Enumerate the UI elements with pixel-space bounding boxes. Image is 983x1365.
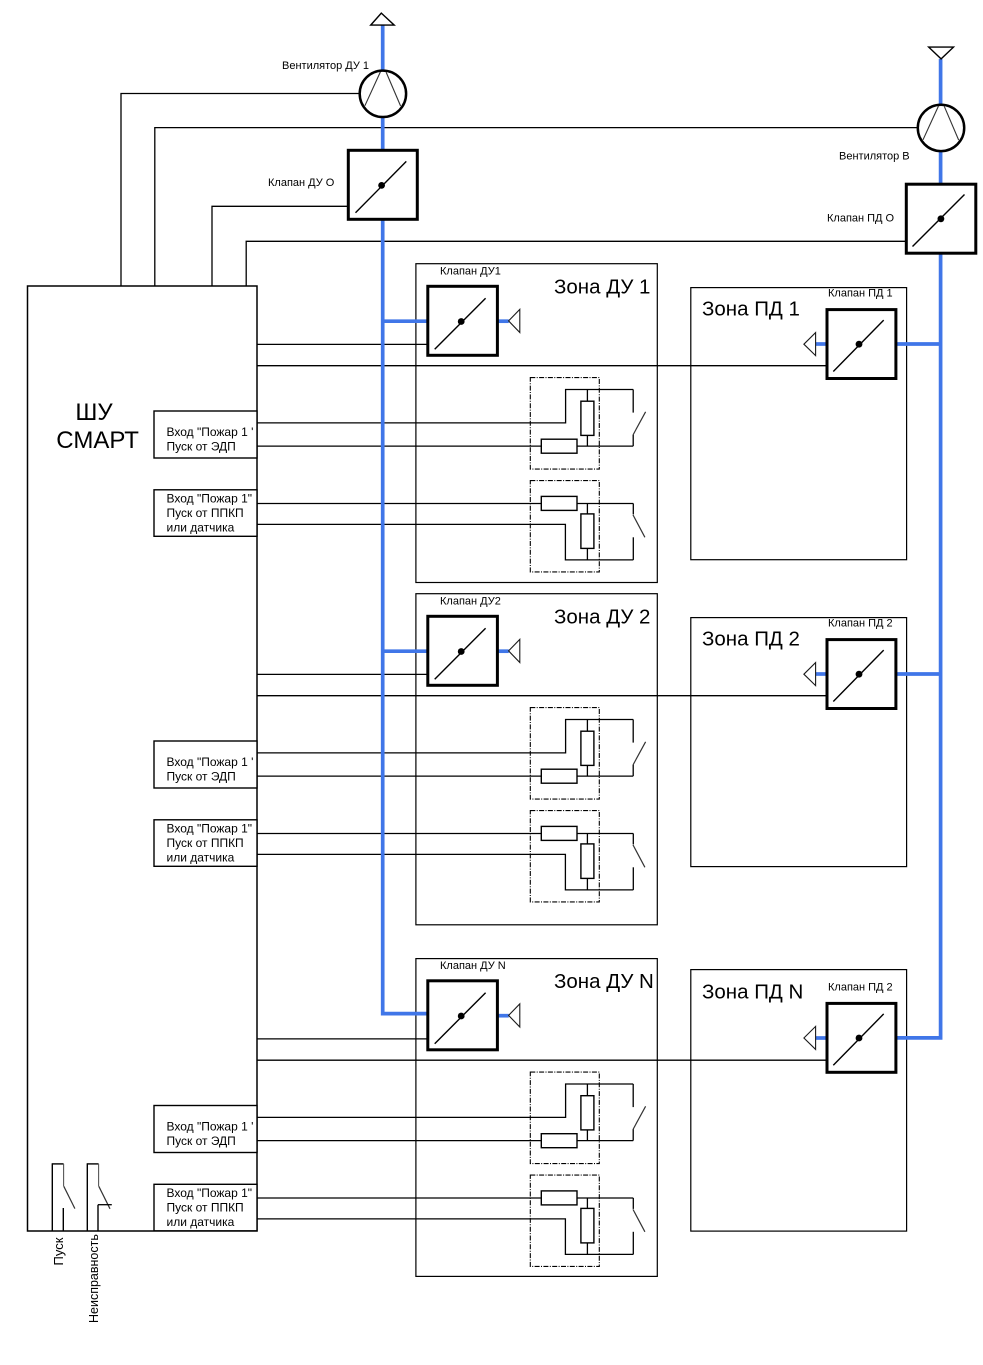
svg-text:Клапан ПД 2: Клапан ПД 2 (828, 982, 893, 994)
wire cabinet to damper ДУ О (212, 206, 348, 286)
wire cabinet to damper ПД (zone N) (257, 1059, 827, 1061)
fan Вентилятор ДУ 1 blades (365, 72, 381, 106)
duct stub left of Клапан ПД 1 (814, 342, 827, 346)
valve blade (zone ПД 2) (833, 650, 883, 701)
wire ППКП line 2 (zone N) (257, 1219, 633, 1255)
wire resistor link (zone N ЭДП) (577, 1140, 633, 1142)
svg-text:Пуск от ЭДП: Пуск от ЭДП (167, 770, 236, 784)
wire cabinet to fan В (155, 128, 919, 286)
svg-text:Вход "Пожар 1 ': Вход "Пожар 1 ' (167, 755, 254, 769)
dashed box ЭДП (zone 2) (530, 708, 599, 800)
resistor vertical (zone 1 ЭДП) (581, 401, 594, 435)
valve box Клапан ПД 2 (zone ПД 2) (827, 640, 896, 709)
svg-text:Зона ПД N: Зона ПД N (702, 981, 803, 1004)
wire vertical resistor leads (zone 2 ЭДП) (586, 720, 588, 732)
wire cabinet to valve Клапан ДУ1 (257, 343, 428, 345)
duct stub right of Клапан ДУ N (497, 1014, 508, 1018)
switch Пуск leads (51, 1163, 53, 1231)
input box Вход Пожар 1 / Пуск от ППКП или датчика (zone 2) (154, 820, 257, 867)
switch Пуск blade (64, 1186, 75, 1208)
resistor vertical (zone N ЭДП) (581, 1096, 594, 1130)
valve pivot dot Клапан ДУ N (458, 1013, 465, 1020)
valve blade Клапан ДУ N (435, 993, 486, 1044)
switch contact (zone 1 ЭДП) (632, 390, 634, 413)
wire cabinet to valve Клапан ДУ N (257, 1038, 428, 1040)
nozzle horn (zone ДУ N) (509, 1004, 520, 1027)
fan Вентилятор В circle (918, 105, 964, 151)
valve box Клапан ДУ2 (428, 616, 498, 685)
wire ЭДП line 1 (zone 2) (257, 720, 633, 753)
switch Неисправность bottom lead (97, 1205, 99, 1231)
wire cabinet to damper ПД О (246, 241, 906, 286)
switch contact (zone 2 ЭДП) (632, 720, 634, 743)
resistor horizontal (zone 1 ППКП) (541, 496, 577, 510)
damper Клапан ПД О box (906, 184, 976, 253)
duct branch to Клапан ДУ1 (381, 319, 428, 323)
valve blade Клапан ДУ1 (435, 298, 486, 349)
wire cabinet to damper ПД (zone 1) (257, 365, 827, 367)
svg-text:Вход "Пожар 1 ': Вход "Пожар 1 ' (167, 1120, 254, 1134)
duct stub right of Клапан ДУ1 (497, 319, 508, 323)
svg-text:Вход "Пожар 1": Вход "Пожар 1" (167, 492, 253, 506)
wire vertical resistor leads (zone 1 ЭДП) (586, 390, 588, 402)
wire vertical resistor leads (zone 1 ППКП) (586, 504, 588, 514)
wire ЭДП line 2 (zone N) (257, 1140, 541, 1142)
wire vertical resistor leads (zone N ППКП) (586, 1198, 588, 1208)
duct branch from Клапан ПД 1 (896, 342, 941, 346)
fan Вентилятор В blades (923, 106, 939, 140)
switch contact (zone 1 ППКП) (632, 504, 634, 515)
svg-text:Пуск от ППКП: Пуск от ППКП (167, 836, 244, 850)
fan Вентилятор ДУ 1 circle (360, 71, 406, 117)
damper Клапан ДУ О box (348, 150, 417, 219)
resistor horizontal (zone 1 ЭДП) (541, 439, 577, 453)
nozzle horn (zone ПД N) (804, 1026, 816, 1049)
resistor horizontal (zone 2 ППКП) (541, 826, 577, 840)
nozzle horn (zone ДУ 1) (509, 309, 520, 332)
duct ДУ fan to damper ДУ О (381, 117, 385, 150)
valve pivot dot (zone ПД 2) (856, 671, 863, 678)
intake inlet triangle (down) (929, 47, 954, 59)
zone box Зона ДУ 1 (416, 264, 657, 583)
dashed box ЭДП (zone N) (530, 1072, 599, 1164)
svg-text:Клапан ПД 2: Клапан ПД 2 (828, 618, 893, 630)
resistor horizontal (zone 2 ЭДП) (541, 769, 577, 783)
wire ЭДП line 2 (zone 2) (257, 775, 541, 777)
svg-text:Неисправность: Неисправность (87, 1234, 101, 1323)
duct stub right of Клапан ДУ2 (497, 649, 508, 653)
resistor vertical (zone N ППКП) (581, 1208, 594, 1243)
svg-text:или датчика: или датчика (167, 520, 235, 534)
valve pivot dot (zone ПД 1) (856, 341, 863, 348)
resistor vertical (zone 2 ППКП) (581, 844, 594, 879)
svg-text:ШУ: ШУ (75, 399, 113, 426)
wire ЭДП line 2 (zone 1) (257, 445, 541, 447)
duct branch to Клапан ДУ2 (381, 649, 428, 653)
svg-text:Зона ПД 2: Зона ПД 2 (702, 628, 800, 651)
wire vertical resistor leads (zone N ЭДП) (586, 1084, 588, 1096)
dashed box ППКП (zone N) (530, 1175, 599, 1266)
valve box Клапан ДУ N (428, 981, 498, 1050)
dashed box ЭДП (zone 1) (530, 378, 599, 470)
svg-text:Вентилятор В: Вентилятор В (839, 151, 910, 163)
switch Неисправность leads (86, 1163, 88, 1231)
wire ППКП line 1 (zone N) (257, 1197, 541, 1199)
switch contact (zone 2 ППКП) (632, 834, 634, 845)
input box Вход Пожар 1 / Пуск от ЭДП (zone N) (154, 1106, 257, 1153)
svg-text:Вход "Пожар 1 ': Вход "Пожар 1 ' (167, 425, 254, 439)
valve blade Клапан ДУ2 (435, 628, 486, 679)
input box Вход Пожар 1 / Пуск от ППКП или датчика (zone N) (154, 1184, 257, 1231)
svg-text:Пуск от ППКП: Пуск от ППКП (167, 506, 244, 520)
svg-text:Пуск от ЭДП: Пуск от ЭДП (167, 1134, 236, 1148)
duct ПД fan to damper ПД О (939, 151, 943, 185)
wire ППКП line 2 (zone 2) (257, 854, 633, 890)
control cabinet ШУ СМАРТ box (28, 286, 258, 1231)
wire resistor link (zone 1 ППКП) (577, 503, 633, 505)
input box Вход Пожар 1 / Пуск от ЭДП (zone 2) (154, 741, 257, 788)
duct ДУ main riser (above fan) (381, 25, 385, 73)
damper Клапан ПД О pivot dot (938, 215, 945, 222)
exhaust outlet triangle (up) (371, 13, 395, 25)
svg-text:Зона ПД 1: Зона ПД 1 (702, 298, 800, 321)
nozzle horn (zone ПД 1) (804, 333, 816, 356)
damper Клапан ДУ О pivot dot (378, 182, 385, 189)
svg-text:Клапан ДУ2: Клапан ДУ2 (440, 596, 501, 608)
svg-text:Клапан ДУ1: Клапан ДУ1 (440, 266, 501, 278)
wire ППКП line 2 (zone 1) (257, 524, 633, 560)
zone box Зона ПД 2 (691, 618, 907, 867)
svg-text:Вход "Пожар 1": Вход "Пожар 1" (167, 822, 253, 836)
duct ДУ main vertical with elbow to Клапан ДУ N (383, 219, 428, 1013)
wire ЭДП line 1 (zone N) (257, 1084, 633, 1117)
svg-text:Пуск от ЭДП: Пуск от ЭДП (167, 440, 236, 454)
zone box Зона ПД 1 (691, 288, 907, 560)
wire resistor link (zone 2 ППКП) (577, 833, 633, 835)
duct branch from Клапан ПД 2 (896, 672, 941, 676)
input box Вход Пожар 1 / Пуск от ППКП или датчика (zone 1) (154, 490, 257, 537)
switch contact (zone N ЭДП) (632, 1084, 634, 1107)
wire cabinet to fan ДУ 1 (121, 94, 361, 287)
resistor horizontal (zone N ЭДП) (541, 1134, 577, 1148)
valve pivot dot (zone ПД N) (856, 1035, 863, 1042)
input box Вход Пожар 1 / Пуск от ЭДП (zone 1) (154, 411, 257, 458)
switch contact (zone N ППКП) (632, 1198, 634, 1209)
svg-text:Клапан ДУ N: Клапан ДУ N (440, 960, 506, 972)
svg-text:Клапан ПД 1: Клапан ПД 1 (828, 288, 893, 300)
nozzle horn (zone ДУ 2) (509, 639, 520, 662)
valve blade (zone ПД N) (833, 1014, 883, 1065)
duct stub left of Клапан ПД 2 (814, 672, 827, 676)
svg-text:Клапан ПД О: Клапан ПД О (827, 213, 895, 225)
dashed box ППКП (zone 2) (530, 811, 599, 902)
svg-text:Зона ДУ 1: Зона ДУ 1 (554, 275, 650, 298)
duct stub left of Клапан ПД N (814, 1036, 826, 1040)
resistor horizontal (zone N ППКП) (541, 1191, 577, 1205)
valve pivot dot Клапан ДУ1 (458, 318, 465, 325)
wire ЭДП line 1 (zone 1) (257, 390, 633, 423)
resistor vertical (zone 2 ЭДП) (581, 731, 594, 765)
zone box Зона ПД N (691, 970, 907, 1232)
wire cabinet to valve Клапан ДУ2 (257, 673, 428, 675)
damper Клапан ПД О blade (913, 195, 965, 247)
damper Клапан ДУ О blade (356, 161, 407, 212)
zone box Зона ДУ N (416, 959, 657, 1277)
duct ПД main vertical with elbow to Клапан ПД N (895, 253, 941, 1038)
nozzle horn (zone ПД 2) (804, 663, 816, 686)
wire ППКП line 1 (zone 2) (257, 833, 541, 835)
dashed box ППКП (zone 1) (530, 481, 599, 572)
svg-text:Вход "Пожар 1": Вход "Пожар 1" (167, 1186, 253, 1200)
wire resistor link (zone N ППКП) (577, 1197, 633, 1199)
switch Неисправность blade (99, 1186, 110, 1209)
wire cabinet to damper ПД (zone 2) (257, 695, 827, 697)
valve blade (zone ПД 1) (833, 320, 883, 371)
svg-text:СМАРТ: СМАРТ (56, 427, 139, 454)
resistor vertical (zone 1 ППКП) (581, 514, 594, 549)
svg-text:Зона ДУ N: Зона ДУ N (554, 970, 654, 993)
svg-text:Зона ДУ 2: Зона ДУ 2 (554, 606, 650, 629)
svg-text:Вентилятор ДУ 1: Вентилятор ДУ 1 (282, 60, 369, 72)
valve pivot dot Клапан ДУ2 (458, 648, 465, 655)
svg-text:или датчика: или датчика (167, 850, 235, 864)
wire ППКП line 1 (zone 1) (257, 503, 541, 505)
svg-text:Клапан ДУ О: Клапан ДУ О (268, 177, 335, 189)
duct ПД intake triangle to fan В (939, 59, 943, 106)
zone box Зона ДУ 2 (416, 594, 657, 925)
switch Пуск bottom lead (62, 1208, 64, 1231)
valve box Клапан ДУ1 (428, 286, 498, 355)
wire resistor link (zone 2 ЭДП) (577, 775, 633, 777)
wire vertical resistor leads (zone 2 ППКП) (586, 834, 588, 844)
svg-text:или датчика: или датчика (167, 1215, 235, 1229)
wire resistor link (zone 1 ЭДП) (577, 445, 633, 447)
valve box Клапан ПД 1 (zone ПД 1) (827, 310, 896, 379)
valve box Клапан ПД 2 (zone ПД N) (827, 1003, 896, 1072)
svg-text:Пуск от ППКП: Пуск от ППКП (167, 1201, 244, 1215)
svg-text:Пуск: Пуск (51, 1237, 66, 1265)
switch Неисправность bar (98, 1204, 112, 1206)
